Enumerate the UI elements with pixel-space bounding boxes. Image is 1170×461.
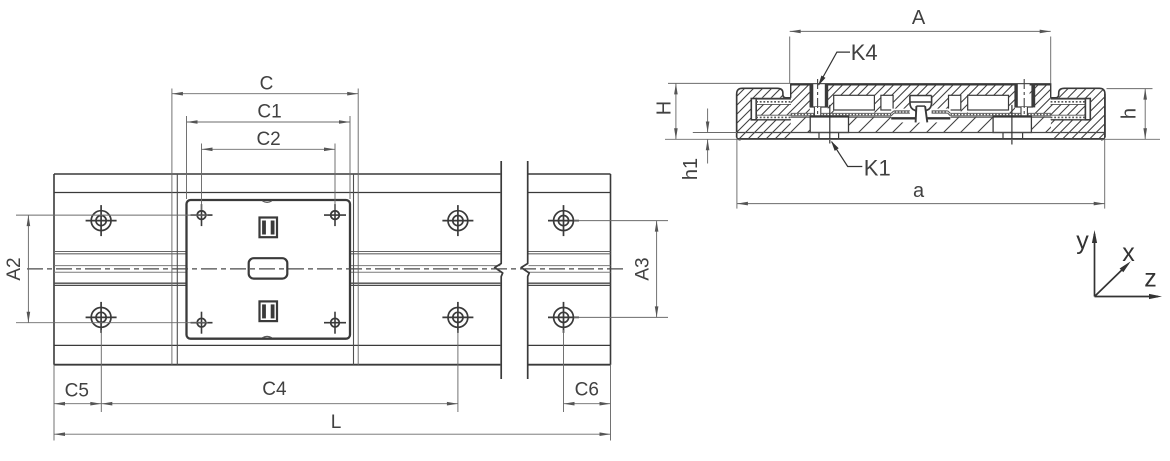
svg-text:h1: h1: [680, 158, 702, 180]
section base right wall: [999, 88, 1170, 140]
dim C5 C4 C6: [53, 365, 55, 441]
right wall outline: [1051, 88, 1105, 137]
svg-text:K1: K1: [864, 155, 891, 180]
svg-text:C4: C4: [262, 379, 287, 400]
rail center relief notch: [916, 106, 928, 123]
svg-text:h: h: [1118, 108, 1140, 119]
rail raceway groove lines: [54, 251, 500, 253]
carriage plate hatch: [718, 84, 1150, 116]
svg-text:K4: K4: [851, 40, 878, 65]
svg-text:C1: C1: [257, 102, 281, 123]
dim A2: [16, 214, 208, 216]
base bottom lines: [737, 132, 1105, 134]
recirculation blocks: [834, 95, 875, 110]
crown right pocket (seal lip): [932, 110, 948, 112]
svg-text:y: y: [1076, 227, 1089, 255]
rail mounting holes: [91, 211, 111, 231]
K4 tapped hole left: [813, 84, 825, 107]
dim a: [736, 139, 738, 208]
dim A3: [574, 220, 668, 222]
dim H: [668, 82, 790, 84]
coordinate axes: [1094, 234, 1096, 297]
dim L: [54, 433, 611, 435]
main seal band: [791, 112, 891, 114]
svg-text:L: L: [331, 412, 342, 433]
crown left pocket (seal lip): [894, 110, 910, 112]
dim h: [1107, 88, 1153, 90]
tongue seal strips right: [1051, 98, 1086, 100]
dim C: [171, 89, 173, 365]
grease port top: [260, 218, 278, 238]
K1 leader: [832, 142, 863, 167]
dim A: [789, 37, 791, 84]
carriage center cavity: [249, 258, 288, 278]
svg-text:a: a: [913, 180, 925, 202]
svg-text:z: z: [1144, 265, 1157, 293]
dim C2: [201, 144, 203, 211]
base band hatch: [773, 116, 1113, 133]
svg-text:A2: A2: [4, 257, 25, 280]
dim h1: [693, 132, 737, 134]
svg-text:C2: C2: [256, 129, 280, 150]
svg-text:H: H: [653, 101, 675, 115]
svg-text:A3: A3: [633, 257, 654, 280]
svg-text:C5: C5: [65, 381, 89, 402]
dim C1: [186, 116, 188, 199]
svg-text:A: A: [912, 7, 926, 29]
K1 counterbore right: [993, 116, 1031, 133]
svg-text:C: C: [260, 74, 274, 95]
carriage bottom notch: [262, 336, 271, 337]
grease port bottom: [260, 301, 278, 321]
rail body (plan view): [54, 173, 500, 175]
K1 indicator line: [829, 105, 831, 144]
section base left wall: [684, 88, 862, 140]
break lines: [495, 161, 503, 379]
centerline: [27, 268, 623, 270]
svg-text:x: x: [1122, 239, 1135, 267]
tongue seal strips left: [756, 98, 791, 100]
K4 leader: [819, 52, 850, 85]
right slot: [1051, 98, 1086, 119]
svg-text:C6: C6: [575, 379, 599, 400]
left wall outline: [737, 88, 791, 137]
K1 counterbore left: [810, 116, 848, 133]
rail end-seal feature lines: [176, 174, 178, 365]
carriage mounting holes: [197, 211, 206, 220]
left slot: [756, 98, 791, 119]
carriage top notch: [262, 201, 271, 202]
right bore indicator line: [1011, 105, 1013, 145]
rail crown section: [891, 109, 950, 123]
carriage block: [187, 200, 351, 339]
plate top surface: [791, 83, 1051, 85]
K4 tapped hole right: [1017, 84, 1029, 107]
